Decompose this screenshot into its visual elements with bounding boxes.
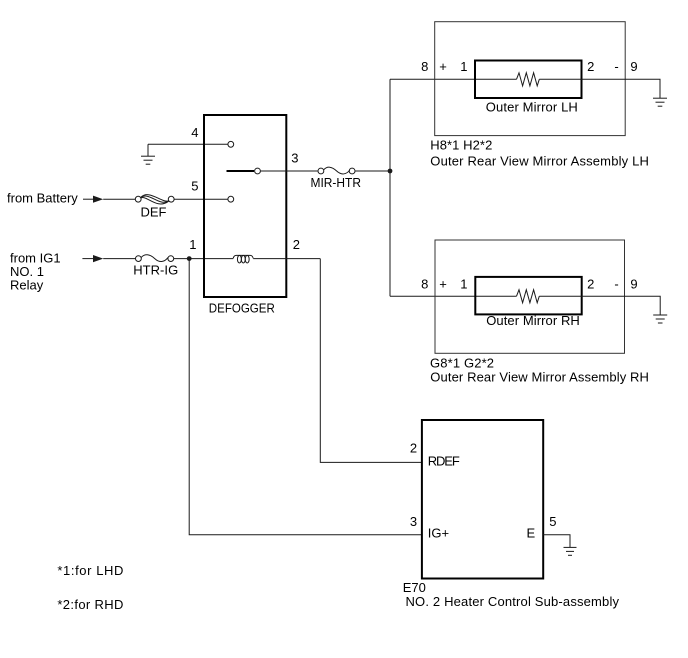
svg-text:Relay: Relay: [10, 278, 44, 293]
svg-text:4: 4: [191, 125, 198, 140]
svg-text:2: 2: [293, 237, 300, 252]
label IG+: [428, 526, 449, 541]
svg-text:G8*1 G2*2: G8*1 G2*2: [430, 355, 494, 370]
label E70: [403, 580, 426, 595]
ECU box E70: [422, 420, 543, 579]
svg-text:2: 2: [410, 441, 417, 456]
svg-text:DEFOGGER: DEFOGGER: [209, 301, 275, 316]
wire arrow to fuse DEF: [103, 198, 135, 200]
label pin 4: [191, 125, 198, 140]
svg-text:1: 1: [189, 237, 196, 252]
label pin 1: [189, 237, 196, 252]
wire from Battery to arrow: [83, 198, 93, 200]
resistor heater LH: [517, 73, 540, 86]
inner box Outer Mirror RH: [475, 277, 581, 315]
svg-text:9: 9: [630, 277, 637, 292]
inner box Outer Mirror LH: [475, 61, 582, 99]
label HTR-IG: [133, 263, 178, 278]
outer box Rear View Mirror Assembly LH: [435, 22, 626, 136]
label NO. 2 Heater Control Sub-assembly: [406, 594, 620, 609]
label pin 2 RDEF: [410, 441, 417, 456]
svg-text:IG+: IG+: [428, 526, 449, 541]
label DEF: [141, 205, 167, 220]
wire resistor LH to ground: [539, 79, 660, 98]
svg-text:+: +: [439, 59, 447, 74]
svg-text:*2:for RHD: *2:for RHD: [57, 597, 123, 612]
wire trunk top to LH mirror: [390, 78, 517, 80]
junction node trunk: [388, 169, 393, 174]
label pin 5: [549, 514, 556, 529]
resistor heater RH: [517, 290, 540, 303]
label Outer Rear View Mirror Assembly LH: [430, 153, 649, 168]
svg-text:2: 2: [587, 277, 594, 292]
svg-text:9: 9: [630, 59, 637, 74]
svg-text:RDEF: RDEF: [428, 453, 460, 468]
svg-text:E70: E70: [403, 580, 426, 595]
label H8*1 H2*2: [430, 137, 492, 152]
label G8*1 G2*2: [430, 355, 494, 370]
svg-text:H8*1 H2*2: H8*1 H2*2: [430, 137, 492, 152]
pin labels LH mirror: [421, 59, 637, 74]
label DEFOGGER: [209, 301, 275, 316]
svg-text:3: 3: [410, 514, 417, 529]
svg-text:*1:for LHD: *1:for LHD: [57, 563, 123, 578]
pin labels RH mirror: [421, 277, 637, 292]
svg-text:HTR-IG: HTR-IG: [133, 263, 178, 278]
label MIR-HTR: [311, 175, 362, 190]
node from Battery label: [7, 191, 78, 206]
note *1 for LHD: [57, 563, 123, 578]
svg-text:E: E: [527, 525, 536, 540]
label pin 3: [291, 150, 298, 165]
svg-text:Outer Rear View Mirror Assembl: Outer Rear View Mirror Assembly RH: [430, 369, 649, 384]
wire pin 2 down to E70 RDEF: [320, 259, 422, 463]
switch arm circle: [255, 168, 261, 174]
label Outer Mirror LH: [486, 100, 578, 115]
label pin 3 IG+: [410, 514, 417, 529]
wire trunk vertical: [389, 79, 391, 296]
svg-text:5: 5: [191, 179, 198, 194]
label pin 5: [191, 179, 198, 194]
svg-text:3: 3: [291, 150, 298, 165]
svg-text:MIR-HTR: MIR-HTR: [311, 175, 362, 190]
wire resistor RH to ground: [539, 296, 660, 315]
ground LH mirror: [653, 98, 667, 106]
relay box DEFOGGER: [204, 115, 286, 297]
svg-text:DEF: DEF: [141, 205, 167, 220]
arrow battery feed: [93, 196, 103, 203]
svg-text:8: 8: [421, 277, 428, 292]
wire fuse DEF to pin 5: [174, 198, 228, 200]
label Outer Mirror RH: [486, 313, 580, 328]
pin 4 terminal circle: [228, 141, 234, 147]
svg-text:Outer Mirror RH: Outer Mirror RH: [486, 313, 580, 328]
label Outer Rear View Mirror Assembly RH: [430, 369, 649, 384]
note *2 for RHD: [57, 597, 123, 612]
wire fuse HTR-IG to defogger pin 1: [174, 258, 234, 260]
svg-text:5: 5: [549, 514, 556, 529]
ground RH mirror: [653, 315, 667, 323]
fuse DEF (fusible link): [135, 195, 174, 204]
coil inside DEFOGGER (pins 1-2): [233, 255, 253, 263]
wire fuse MIR-HTR to trunk junction: [355, 170, 390, 172]
svg-text:-: -: [614, 59, 618, 74]
svg-text:-: -: [614, 277, 618, 292]
wire trunk bottom to RH mirror: [390, 295, 517, 297]
wire arrow to fuse HTR-IG: [103, 258, 135, 260]
arrow IG1 feed: [93, 255, 103, 262]
svg-text:Outer Rear View Mirror Assembl: Outer Rear View Mirror Assembly LH: [430, 153, 649, 168]
svg-text:1: 1: [460, 277, 467, 292]
label pin 2: [293, 237, 300, 252]
wire ground to pin 4: [148, 143, 228, 145]
wire pin 3 to fuse MIR-HTR: [260, 170, 318, 172]
wire E70 pin 5 to ground: [543, 535, 570, 548]
fuse HTR-IG: [136, 255, 174, 262]
wire coil to pin 2 and right: [253, 258, 320, 260]
junction node pin 1: [187, 256, 192, 261]
svg-text:1: 1: [460, 59, 467, 74]
svg-text:8: 8: [421, 59, 428, 74]
label RDEF: [428, 453, 460, 468]
wire pin 1 junction down to E70 IG+: [189, 259, 422, 535]
node from IG1 NO.1 Relay label: [10, 250, 61, 292]
pin 5 terminal circle: [228, 196, 234, 202]
svg-text:NO. 2 Heater Control Sub-assem: NO. 2 Heater Control Sub-assembly: [406, 594, 620, 609]
fuse MIR-HTR: [318, 167, 355, 174]
wire from IG1 to arrow: [82, 258, 93, 260]
switch contact arm (pin 3): [227, 170, 255, 172]
ground E70: [564, 547, 577, 555]
svg-text:2: 2: [587, 59, 594, 74]
outer box Rear View Mirror Assembly RH: [435, 240, 625, 353]
label E: [527, 525, 536, 540]
svg-text:from Battery: from Battery: [7, 191, 78, 206]
svg-text:+: +: [439, 277, 447, 292]
svg-text:Outer Mirror LH: Outer Mirror LH: [486, 100, 578, 115]
ground (defogger pin 4): [141, 144, 155, 164]
